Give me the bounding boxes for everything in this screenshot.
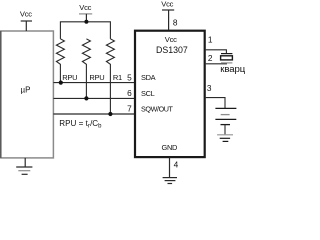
svg-text:Vcc: Vcc	[161, 0, 173, 9]
svg-text:R1: R1	[113, 73, 122, 82]
svg-text:3: 3	[207, 83, 212, 93]
wire SQW/OUT bus	[53, 113, 135, 115]
node SQW junction	[108, 112, 112, 116]
svg-text:µP: µP	[21, 86, 31, 95]
svg-text:7: 7	[127, 104, 132, 114]
svg-text:2: 2	[208, 53, 213, 63]
resistor RPU (first, pullup SDA)	[56, 39, 64, 83]
svg-text:SDA: SDA	[141, 73, 156, 82]
battery BT1 backup cell	[215, 108, 236, 124]
svg-text:5: 5	[127, 72, 132, 82]
wire pin1 to crystal	[206, 50, 227, 54]
resistor R1 (pullup SQW/OUT)	[106, 39, 114, 114]
svg-text:Vcc: Vcc	[79, 3, 91, 12]
svg-text:SCL: SCL	[141, 89, 155, 98]
Vcc symbol above uP	[21, 21, 32, 31]
svg-text:кварц: кварц	[220, 64, 245, 75]
microprocessor U-uP box	[1, 31, 54, 158]
wire pin3 to battery	[206, 98, 225, 109]
wire SCL bus	[53, 97, 135, 99]
wire SDA bus	[53, 82, 135, 84]
svg-text:1: 1	[208, 35, 213, 45]
node rail junction	[84, 20, 88, 24]
ground (battery)	[217, 135, 233, 142]
svg-text:6: 6	[127, 88, 132, 98]
svg-text:RPU: RPU	[62, 73, 77, 82]
Vcc symbol above resistors	[79, 14, 92, 22]
svg-text:RPU: RPU	[89, 73, 104, 82]
wire battery to ground	[224, 125, 226, 135]
svg-text:Vcc: Vcc	[20, 9, 32, 18]
svg-text:Vcc: Vcc	[165, 35, 177, 44]
wire pin2 to crystal	[206, 62, 227, 65]
node SCL junction	[84, 96, 88, 100]
ground (uP)	[16, 158, 32, 174]
svg-text:8: 8	[173, 18, 178, 28]
resistor RPU (second, pullup SCL)	[82, 39, 90, 99]
svg-text:SQW/OUT: SQW/OUT	[141, 104, 174, 113]
IC U1 DS1307 box	[135, 31, 205, 157]
Vcc symbol above IC	[162, 10, 174, 30]
svg-text:DS1307: DS1307	[156, 45, 188, 55]
wire Vcc rail over resistors	[60, 22, 110, 39]
ground (IC GND pin 4)	[163, 157, 177, 183]
svg-text:4: 4	[174, 160, 179, 170]
svg-text:GND: GND	[162, 143, 178, 152]
node SDA junction	[59, 81, 63, 85]
crystal Y1 (kvarts)	[221, 54, 233, 63]
